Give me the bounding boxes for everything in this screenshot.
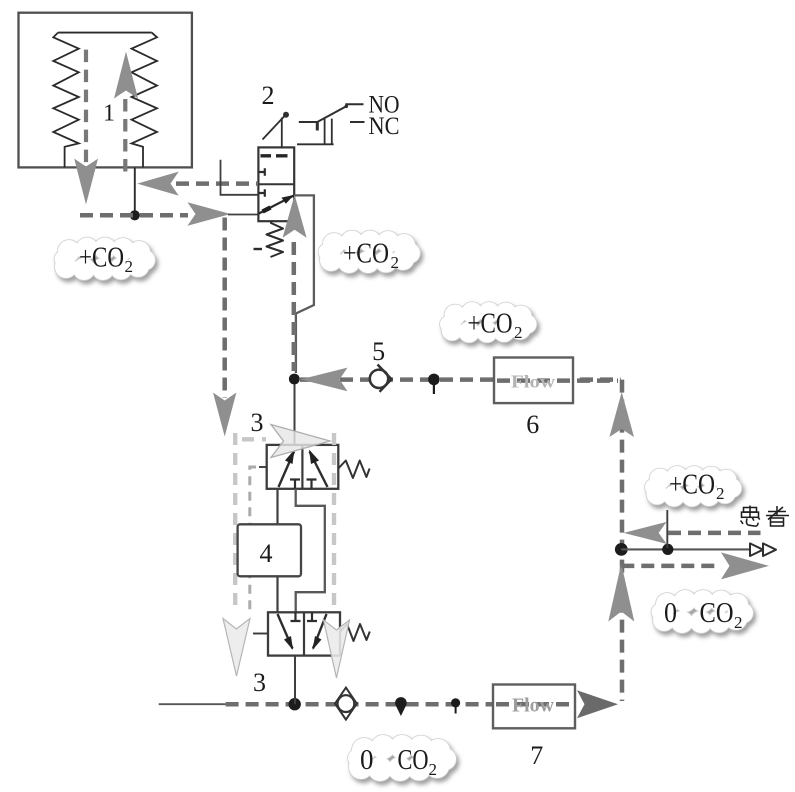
wire: dashed branch down from valve 2 inlet	[222, 218, 227, 399]
light dashed loop top stub	[242, 437, 266, 441]
arrow: flow down out of bellows	[74, 159, 98, 205]
svg-text:1: 1	[103, 101, 115, 127]
microswitch common contact	[299, 121, 318, 123]
patient connector triangles	[750, 543, 763, 556]
valve 3 lower blocked ports	[291, 612, 318, 621]
cloud: +CO2 at patient exhale	[645, 466, 742, 507]
wire: dashed line from junction to valve 2 lower port	[80, 213, 188, 218]
valve V2 flow path diagonal	[259, 196, 294, 214]
svg-text:6: 6	[526, 410, 539, 439]
node: bellows outlet junction	[130, 210, 140, 220]
arrow: light flow down right	[324, 620, 350, 678]
wire: bottom return dashed line	[226, 702, 575, 707]
flow restrictor box 6	[494, 358, 573, 404]
valve 3 upper right flow diagonal	[310, 452, 328, 488]
node: sampling port 1 on bottom line	[395, 697, 407, 709]
node: patient branch junction	[662, 544, 673, 555]
svg-text:3: 3	[253, 668, 266, 697]
svg-text:3: 3	[251, 408, 264, 437]
svg-text:2: 2	[391, 253, 400, 272]
switch lever of valve 2	[263, 116, 286, 140]
valve 3 upper left flow diagonal	[279, 452, 295, 488]
wire: stub above patient junction	[666, 510, 668, 548]
svg-text:CO: CO	[700, 597, 734, 629]
svg-text:2: 2	[429, 760, 438, 779]
svg-text:2: 2	[125, 257, 134, 276]
cloud: +CO2 right of valve 2	[319, 231, 421, 274]
node: sampling port 2 on bottom line	[451, 698, 460, 707]
valve V2 closed position marks	[261, 154, 288, 157]
svg-text:+CO: +CO	[468, 308, 513, 340]
wire: dashed return line from valve 2 toward bellows	[176, 181, 257, 186]
valve 3 lower body	[268, 612, 340, 655]
valve V2 body	[258, 147, 294, 221]
valve 3 upper left port stub	[259, 466, 267, 468]
svg-text:7: 7	[530, 741, 543, 770]
node B junction to patient	[615, 543, 628, 556]
arrow: flow up into valve 2	[283, 195, 307, 238]
svg-text:NC: NC	[369, 113, 400, 140]
valve 3 lower right flow diagonal	[313, 614, 327, 649]
absorber box 4	[238, 524, 301, 576]
valve 3 upper body	[267, 445, 339, 489]
wire: valve 2 output pipe down to node A	[294, 195, 314, 373]
arrow: exhale flow left	[624, 522, 667, 544]
wire: dashed exhale flow down inside bellows	[84, 50, 88, 172]
bellows left pleats	[53, 33, 79, 168]
svg-text:2: 2	[514, 323, 523, 342]
arrow: flow left into node A	[301, 368, 348, 392]
arrow: light flow right into valve 3 upper	[271, 425, 330, 458]
switch housing	[297, 119, 334, 145]
wire: thin link into valve 2 left port	[228, 214, 258, 216]
wire: bypass around box 4	[296, 489, 325, 613]
cloud: 0 CO2 on bottom line	[348, 735, 456, 781]
arrow: flow down on branch	[213, 393, 236, 437]
wire: node A down to valve 3 upper	[294, 384, 296, 445]
wire: dashed inhale flow up inside bellows	[123, 99, 127, 178]
spring of valve V2	[267, 221, 284, 257]
arrow: flow up into bellows	[114, 52, 138, 99]
light dashed recirculation loop right	[332, 433, 336, 612]
bellows top bar	[58, 32, 152, 34]
arrow: flow right toward valve 2	[188, 202, 231, 226]
svg-text:2: 2	[716, 484, 725, 503]
spring of valve 3 upper	[338, 461, 369, 479]
arrow: flow right out of box 7	[577, 690, 618, 718]
microswitch blade to NO contact	[317, 104, 363, 122]
arrow: inhale flow right	[721, 552, 769, 579]
check valve on bottom line	[335, 688, 357, 720]
node A junction	[289, 374, 300, 385]
wire: dashed fresh-gas line node A to right column	[300, 377, 621, 382]
light dashed recirculation loop left	[233, 433, 237, 612]
svg-text:+CO: +CO	[343, 238, 389, 270]
wire: exhaust stub of valve 2	[221, 160, 259, 195]
valve 3 upper blocked ports	[290, 480, 317, 489]
svg-text:CO: CO	[398, 744, 429, 776]
svg-text:4: 4	[260, 539, 273, 568]
arrow: flow left toward bellows	[137, 172, 179, 196]
svg-text:0: 0	[360, 744, 374, 776]
spring of valve 3 lower	[340, 624, 370, 641]
svg-text:2: 2	[262, 81, 275, 110]
arrow: light flow down left	[223, 619, 250, 677]
arrow: flow up to corner	[609, 392, 634, 437]
wire: dashed exhale from patient	[668, 531, 761, 536]
valve V2 port ticks	[258, 168, 264, 175]
cloud: +CO2 above box 6	[440, 302, 537, 343]
svg-text:Flow: Flow	[512, 695, 555, 717]
svg-text:0: 0	[664, 597, 677, 629]
svg-text:+CO: +CO	[79, 242, 124, 274]
valve 3 lower left port stub	[253, 633, 268, 635]
wire: valve 3 upper to box 4	[276, 489, 278, 525]
node: bottom junction under valve 3	[289, 698, 301, 710]
mid-gray dashed pilot line	[250, 467, 256, 610]
bellows right pleats	[132, 33, 158, 168]
node: sampling port on line 6	[428, 374, 440, 386]
wire: bellows outlet pipe	[134, 168, 136, 216]
NC contact lead	[350, 121, 365, 123]
label patient 患者 (drawn strokes)	[741, 506, 790, 527]
wire: patient line	[621, 548, 749, 550]
wire: dashed right column riser	[620, 380, 625, 701]
flow restrictor box 7	[493, 685, 575, 729]
bellows chamber box 1	[19, 13, 192, 168]
arrow: flow up into node B	[608, 564, 634, 622]
wire: dashed inhale to patient	[621, 564, 716, 569]
svg-text:+CO: +CO	[669, 469, 715, 501]
valve 3 upper centre divider	[301, 445, 303, 489]
wire: box 4 to valve 3 lower	[276, 576, 278, 612]
wire: bottom return line solid tail	[159, 703, 226, 705]
wire: valve 3 lower to bottom line	[294, 656, 296, 705]
valve 3 lower left flow diagonal	[278, 614, 293, 649]
wire: dashed flow up to valve 2	[292, 242, 297, 371]
check valve 5	[370, 370, 388, 388]
valve 3 lower centre divider	[303, 612, 305, 655]
cloud: +CO2 left of bellows	[55, 238, 156, 281]
svg-text:Flow: Flow	[511, 372, 555, 392]
svg-text:5: 5	[372, 337, 385, 366]
svg-text:2: 2	[734, 613, 743, 632]
cloud: 0 CO2 at patient inhale	[652, 590, 754, 633]
